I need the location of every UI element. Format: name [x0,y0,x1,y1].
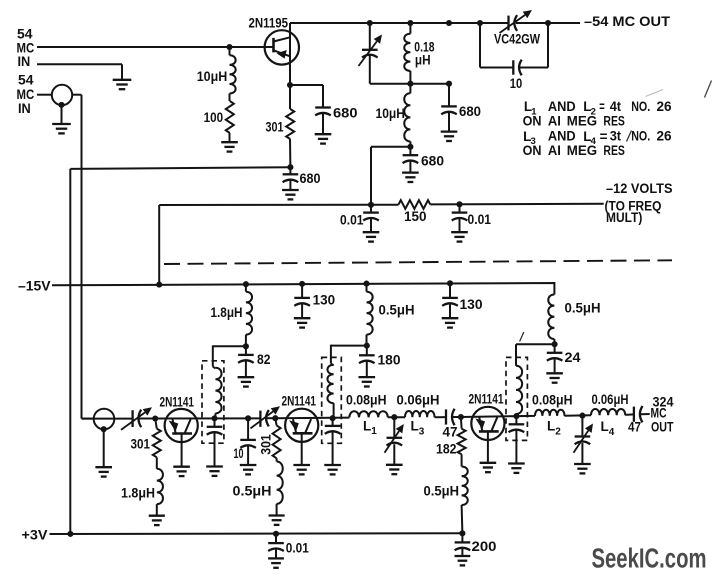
svg-text:1.8μH: 1.8μH [211,305,243,320]
ground (24) [546,372,563,374]
svg-text:680: 680 [333,106,358,121]
scan artifact slash (faint) [646,90,664,97]
transistor Q4 2N1141 [471,407,504,440]
ground (J2) [95,466,112,468]
node rail/VC42GW left [477,20,483,26]
ground (0.01 +3V) [268,557,284,559]
scan artifact slash (stage3) [520,332,524,342]
wire +3V rail [50,532,463,535]
svg-text:0.5μH: 0.5μH [565,300,601,315]
capacitor 47 (series, interstage) [445,409,447,424]
capacitor tank2 [332,418,334,426]
shield box (tank 3) [506,357,527,440]
inductor 10uH (base choke) [229,47,231,55]
node tank1 top [211,415,217,421]
wire -12V feed right [430,203,603,206]
trimmer arrow (stage1 input) [121,412,145,430]
resistor 301 (stage2 bias) [275,418,276,425]
node stage2 input [272,415,278,421]
inductor L3 0.06uH [405,411,435,417]
svg-text:L: L [411,419,419,434]
svg-text:0.08μH: 0.08μH [532,393,573,408]
transistor Q1 2N1195 [265,30,299,64]
svg-text:2N1141: 2N1141 [160,395,195,410]
svg-text:301: 301 [266,120,284,135]
svg-text:26: 26 [657,99,673,114]
svg-text:ON: ON [523,143,542,158]
node rail/680 [446,20,452,26]
capacitor 0.01 (+3V bypass) [275,534,277,543]
ground (0.01 right) [451,231,468,233]
VC42GW arrow [500,15,525,33]
node -12V / 0.01 left [368,202,374,208]
svg-text:VC42GW: VC42GW [494,32,540,47]
capacitor 680 (to ground) [289,167,291,174]
wire Q4 base stem [487,431,489,462]
svg-text:0.01: 0.01 [340,213,364,228]
svg-text:L: L [601,419,609,434]
svg-text:IN: IN [18,101,31,116]
node tank bottom / 0.18uH [407,81,413,87]
svg-text:IN: IN [18,54,31,69]
ground (680) [282,189,299,191]
wire feed to tank L (stage2) [331,345,367,347]
wire IN stub [37,63,122,65]
node L1/L3 [391,414,397,420]
ground (stage3 output trimmer) [574,463,591,465]
svg-text:0.08μH: 0.08μH [346,393,387,408]
ground (tank1 cap) [206,465,223,467]
ground (IN stub) [113,79,132,81]
svg-text:680: 680 [459,104,481,119]
node L2/L4 [579,413,585,419]
node tank bottom / 680 [446,81,452,87]
wire 54MC input to 2N1195 base [37,46,274,48]
svg-text:0.01: 0.01 [286,541,309,556]
wire chain (input run) [82,418,133,420]
svg-text:10: 10 [234,446,244,461]
svg-text:200: 200 [472,539,497,554]
wire output stub [641,413,650,415]
svg-text:1: 1 [371,426,377,437]
node +3V / 0.01 bypass [273,531,279,537]
connector J1 [52,85,72,105]
ground (100 resistor) [221,141,238,143]
node -15V/0.5uH [363,281,369,287]
ground (stage2 output trimmer) [386,464,403,466]
transistor Q3 2N1141 [285,409,318,442]
node -12V / 0.01 right [456,201,462,207]
inductor tank3 [516,366,522,414]
variable capacitor VC42GW [507,16,509,31]
ground (130 right) [442,317,459,319]
wire VC42GW loop [479,23,481,68]
svg-text:680: 680 [421,154,444,169]
capacitor 0.01 (left) [370,205,372,213]
svg-text:AI: AI [548,143,561,158]
svg-text:301: 301 [131,437,151,452]
svg-text:301: 301 [258,434,273,455]
node emitter network [287,164,293,170]
wire J2 shield stem [103,429,105,467]
svg-text:0.5μH: 0.5μH [233,484,272,499]
node J1 shield [58,102,64,108]
wire J1 to multiplier chain input [72,94,81,96]
svg-text:RES: RES [603,143,625,158]
variable capacitor (stage1 input) [131,410,133,427]
shield box (tank 1) [202,361,224,443]
svg-text:2N1141: 2N1141 [282,394,317,409]
svg-text:2N1195: 2N1195 [249,16,289,31]
wire 680 bypass to ground [322,112,324,134]
resistor 301 (emitter) [289,85,291,109]
node -15V/130 right [447,280,453,286]
ground (tank3 cap) [508,462,525,464]
capacitor 130 (right) [449,283,451,298]
inductor tank2 [327,365,333,403]
variable capacitor (interstage 1-2) [259,411,261,427]
svg-text:180: 180 [378,352,401,367]
trimmer arrow (stage3 output) [574,431,589,453]
inductor L4 0.06uH [591,409,625,415]
node stage3 input [458,414,464,420]
ground (680 tank bottom) [402,171,419,173]
wire 54MC to connector J1 [37,94,52,96]
svg-text:=: = [599,99,605,114]
svg-text:10: 10 [510,76,523,91]
wire J1 shield to ground [61,105,63,124]
inductor 1.8uH (stage1 bias) [156,457,158,469]
svg-text:4: 4 [609,427,615,438]
ground (130 left) [294,317,311,319]
svg-text:MC: MC [651,406,667,421]
wire -12V drop to -15V rail [158,205,160,284]
capacitor 0.01 (right) [459,204,461,212]
node coupling (10 cap) [245,415,251,421]
svg-text:L: L [363,418,371,433]
svg-text:24: 24 [565,350,582,365]
ground (200) [455,555,471,557]
svg-text:10μH: 10μH [376,106,406,121]
transistor Q2 2N1141 [165,409,198,442]
capacitor 24 [554,344,556,353]
svg-text:54: 54 [17,27,33,42]
svg-text:3: 3 [419,426,425,437]
scan artifact slash (note line 3) [627,131,632,142]
inductor L2 0.08uH [535,410,565,416]
svg-text:SeekIC.com: SeekIC.com [592,542,707,573]
svg-text:1.8μH: 1.8μH [121,486,155,501]
shield box (tank 2) [322,357,342,443]
ground (Q3) [293,464,310,466]
svg-text:–15V: –15V [18,278,51,293]
svg-text:0.06μH: 0.06μH [397,393,440,408]
ground (0.01 left) [363,231,380,233]
wire L1-L3 [388,416,405,418]
capacitor 82 [245,346,247,355]
wire tank to -12V line [371,146,410,148]
ground (82) [238,376,255,378]
svg-text:680: 680 [300,171,321,186]
node rail/trimmer [367,20,373,26]
capacitor tank1 [214,418,216,426]
svg-text:MEG: MEG [567,113,597,128]
svg-text:82: 82 [257,352,271,367]
svg-text:0.5μH: 0.5μH [379,303,415,318]
svg-text:10μH: 10μH [197,69,228,84]
variable capacitor (tank trimmer) [369,23,371,50]
node tank3 top [513,413,519,419]
inductor 10uH (tank) [409,84,411,94]
ground (stage1 bias) [149,515,165,517]
svg-text:+3V: +3V [22,528,48,543]
inductor tank1 [215,368,221,414]
svg-text:0.01: 0.01 [468,212,492,227]
svg-text:L: L [547,419,555,434]
wire L2 to L4 [565,414,592,417]
svg-text:3t: 3t [610,128,622,143]
wire Q1 collector/emitter vertical [289,23,291,85]
capacitor 180 [366,346,368,356]
node +3V / emitter return [67,531,73,537]
node +3V / 200 bypass [459,530,465,536]
svg-text:0.06μH: 0.06μH [592,392,629,407]
wire -15V rail [52,283,554,295]
svg-text:4t: 4t [610,99,622,114]
wire L4 to output cap [625,413,634,416]
capacitor 680 (emitter bypass) [315,106,331,108]
svg-text:47: 47 [443,425,458,440]
trimmer arrow [359,41,377,66]
wire L3 to 47 [435,416,447,418]
wire tank bottom [370,83,449,85]
svg-text:μH: μH [415,52,431,67]
ground (Q4) [480,462,497,464]
node -15V/1.8uH [243,281,249,287]
variable capacitor (stage3 output) [581,416,583,437]
wire 47 to stage3 node [453,416,461,418]
capacitor 130 (left) [301,284,303,298]
inductor 1.8uH (stage 1 feed) [245,284,247,292]
svg-text:AND: AND [548,99,576,114]
wire feed to tank L (stage3) [516,343,555,345]
connector J2 [94,409,115,430]
node tank2 top [330,415,336,421]
ground (tank2 cap) [324,464,341,466]
wire emitter network to +3V rail [70,167,290,169]
inductor 0.18uH [409,23,411,34]
node rail/VC42GW right [545,20,551,26]
ground (stage2 bias) [269,514,285,516]
trimmer arrow (interstage 1-2) [251,411,274,428]
wire feed to tank L (stage1) [213,345,246,347]
dashed separator line [164,260,672,264]
ground (J1) [52,123,71,125]
node stage3 tank feed [552,341,558,347]
svg-text:OUT: OUT [651,420,674,435]
svg-text:150: 150 [404,209,427,224]
svg-text:MEG: MEG [567,143,597,158]
capacitor 47 (series, output) [633,407,635,422]
resistor 182 [460,417,463,429]
svg-text:NO.: NO. [631,128,650,143]
inductor 0.5uH (stage2 bias) [276,458,278,461]
wire stage3 node to tank3 [461,416,535,417]
scan artifact slash (right edge) [705,81,712,98]
svg-text:MULT): MULT) [606,210,642,225]
capacitor 200 (+3V bypass) [461,533,463,542]
inductor 0.5uH (stage3 bias) [461,454,463,466]
node J2 shield [101,426,107,432]
resistor 150 [399,200,431,209]
node -15V/130 left [299,281,305,287]
node base bias tap [226,44,232,50]
svg-text:NO.: NO. [631,99,650,114]
svg-text:130: 130 [460,297,483,312]
wire Q2 base stem [181,433,183,466]
resistor 301 (stage1 bias) [155,419,157,429]
ground (10 shunt) [240,464,257,466]
wire collector rail [290,22,509,24]
inductor L1 0.08uH [349,411,387,417]
ground (680 tank right) [441,130,458,132]
svg-text:2: 2 [555,426,561,437]
node stage1 tank feed [243,343,249,349]
capacitor tank3 [515,416,517,424]
wire trimmer to stage1 node [139,418,155,420]
capacitor 680 (tank bottom) [409,147,411,155]
trimmer arrow (stage2 output) [385,431,400,453]
svg-text:182: 182 [436,442,457,457]
ground (180) [359,376,376,378]
svg-text:130: 130 [313,293,336,308]
svg-text:=: = [600,129,608,144]
wire -12V feed [159,204,398,206]
svg-text:26: 26 [657,128,673,143]
svg-text:AI: AI [548,113,561,128]
capacitor 680 (tank right) [448,84,450,107]
resistor 100 [229,94,231,102]
capacitor 10 (shunt) [247,418,249,440]
svg-text:–54 MC OUT: –54 MC OUT [584,14,671,29]
inductor 0.5uH (stage 3 feed) [548,295,554,339]
ground (Q2) [173,466,190,468]
inductor 0.5uH (stage 2 feed) [366,284,368,292]
node -15V/-12V drop [156,282,162,288]
svg-text:2N1141: 2N1141 [469,392,504,407]
svg-text:MC: MC [17,87,35,102]
node stage2 tank feed [364,343,370,349]
wire stage1 node to Q2 [155,417,260,419]
ground (680 bypass) [315,133,332,135]
svg-text:0.5μH: 0.5μH [424,484,460,499]
svg-text:RES: RES [603,113,625,128]
wire stage2 node to tank2 [275,417,349,420]
node stage1 input [152,415,158,421]
node 10uH bottom [407,144,413,150]
svg-text:AND: AND [548,128,576,143]
svg-text:–12 VOLTS: –12 VOLTS [606,181,673,196]
wire trimmer to stage2 node [267,417,275,419]
svg-text:ON: ON [523,113,542,128]
capacitor 10 (series) [512,60,514,74]
wire Q3 base stem [301,433,303,465]
node rail/0.18uH [407,20,413,26]
svg-text:100: 100 [204,110,224,125]
wire emitter to bypass cap [290,84,323,86]
svg-text:54: 54 [18,73,34,88]
svg-text:47: 47 [628,420,641,435]
node Q1 emitter [287,82,293,88]
variable capacitor (stage2 output) [393,417,395,438]
